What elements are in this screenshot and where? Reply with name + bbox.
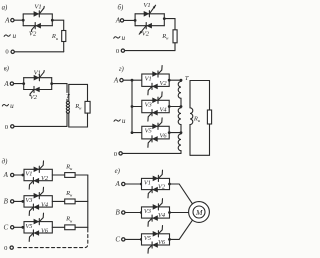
label ~u source — [2, 104, 8, 106]
svg-text:V3: V3 — [145, 102, 152, 109]
wire phase B to motor — [170, 212, 189, 214]
thyristor V6 — [33, 230, 39, 236]
wire A to bus — [123, 79, 132, 81]
label ~u source — [4, 35, 10, 37]
wire to load — [164, 19, 175, 30]
transformer T primary winding — [67, 101, 70, 113]
thyristor V6 — [152, 242, 158, 248]
wire block to winding tap — [169, 132, 181, 134]
svg-text:в): в) — [4, 66, 10, 73]
svg-text:и: и — [122, 117, 126, 125]
svg-text:V3: V3 — [25, 197, 32, 204]
thyristor V2 with arrow gate — [146, 23, 152, 29]
wire load branch — [87, 84, 89, 101]
wire parallel block frame — [23, 78, 25, 90]
node right junction — [51, 19, 54, 22]
node left junction — [134, 19, 137, 22]
svg-text:V4: V4 — [41, 201, 49, 208]
resistor Rn — [65, 173, 75, 178]
wire terminal to block — [125, 183, 142, 185]
terminal 0 — [121, 49, 124, 52]
svg-text:V1: V1 — [34, 4, 41, 11]
thyristor V2 — [33, 178, 39, 184]
thyristor block V5/V6 frame — [142, 126, 169, 139]
resistor Rn — [173, 30, 177, 43]
svg-text:V4: V4 — [159, 106, 167, 113]
output node — [168, 79, 171, 82]
thyristor V4 — [33, 204, 39, 210]
svg-text:V5: V5 — [25, 223, 32, 230]
svg-text:V2: V2 — [29, 31, 37, 38]
svg-text:V2: V2 — [142, 30, 150, 37]
svg-text:С: С — [115, 236, 120, 244]
thyristor V2 — [35, 23, 41, 29]
resistor Rn — [85, 101, 90, 113]
thyristor V3 — [152, 98, 158, 104]
node left junction — [22, 82, 25, 85]
wire parallel block frame — [134, 14, 136, 26]
wire parallel block frame — [22, 14, 24, 26]
wire to transformer primary — [52, 84, 67, 102]
transformer secondary winding — [68, 84, 70, 101]
winding tap node — [180, 105, 183, 108]
svg-text:V5: V5 — [144, 235, 151, 242]
wire terminal to block — [14, 200, 24, 202]
bus junction node — [131, 105, 134, 108]
output node — [168, 211, 171, 214]
terminal 0 — [10, 246, 13, 249]
node — [21, 200, 24, 203]
thyristor block V3/V4 frame — [24, 196, 52, 207]
thyristor V2 — [34, 87, 40, 93]
wire load to 0 rail — [174, 43, 176, 51]
bus vertical — [131, 80, 133, 132]
thyristor block V1/V2 frame — [142, 74, 169, 86]
node — [140, 238, 143, 241]
svg-text:V1: V1 — [145, 75, 152, 82]
wire 0 rail — [14, 51, 63, 53]
svg-text:е): е) — [115, 168, 121, 175]
wire terminal to block — [125, 212, 142, 214]
wire 0 rail — [122, 152, 181, 154]
wire A to node — [124, 19, 136, 21]
wire bus to block — [132, 106, 142, 108]
label ~u source — [114, 37, 120, 39]
resistor Rn — [65, 199, 75, 204]
svg-text:и: и — [13, 32, 17, 40]
wire terminal to block — [14, 226, 24, 228]
wire loop bottom — [190, 124, 210, 155]
wire resistor to right bus — [75, 226, 88, 228]
wire to load — [52, 20, 63, 30]
wire resistor to right bus — [75, 174, 88, 176]
terminal 0 — [119, 152, 122, 155]
thyristor V4 — [152, 110, 158, 116]
thyristor V1 — [34, 75, 40, 81]
node right junction — [163, 17, 166, 20]
winding tap node — [180, 79, 183, 82]
wire load to 0 rail — [63, 42, 65, 52]
node — [21, 226, 24, 229]
output node — [168, 238, 171, 241]
svg-text:V3: V3 — [144, 208, 151, 215]
svg-text:д): д) — [2, 158, 8, 165]
bus junction node — [131, 79, 134, 82]
wire block to resistor — [52, 200, 64, 202]
output node — [168, 131, 171, 134]
svg-text:А: А — [4, 16, 10, 24]
bus junction node — [131, 131, 134, 134]
svg-text:V1: V1 — [25, 171, 32, 178]
svg-text:T: T — [185, 75, 189, 82]
motor M inner circle — [193, 206, 205, 218]
svg-text:V5: V5 — [145, 128, 152, 135]
wire bus to block — [132, 132, 142, 134]
svg-text:и: и — [122, 34, 126, 42]
svg-text:А: А — [113, 76, 119, 84]
wire primary to 0 rail — [66, 113, 68, 126]
thyristor V2 — [152, 187, 158, 193]
thyristor V1 with arrow gate — [144, 11, 150, 17]
resistor Rn — [207, 110, 211, 124]
svg-text:А: А — [3, 80, 9, 88]
thyristor block V3/V4 frame — [142, 207, 170, 218]
resistor Rn — [65, 225, 75, 230]
wire block to resistor — [52, 226, 64, 228]
thyristor V3 — [34, 193, 40, 199]
svg-text:V1: V1 — [144, 180, 151, 187]
thyristor V4 — [152, 215, 158, 221]
wire 0 rail — [14, 125, 67, 127]
terminal 0 — [11, 125, 14, 128]
svg-text:В: В — [4, 198, 9, 206]
thyristor V2 — [152, 84, 158, 90]
thyristor block V1/V2 frame — [142, 178, 170, 189]
thyristor V5 — [153, 231, 159, 237]
svg-text:V2: V2 — [158, 183, 166, 190]
wire terminal to block — [125, 238, 142, 240]
thyristor V1 — [34, 11, 40, 17]
wire bus to block — [132, 79, 142, 81]
node — [140, 211, 143, 214]
svg-text:V1: V1 — [143, 2, 150, 9]
svg-text:T: T — [66, 93, 70, 100]
svg-text:V2: V2 — [159, 80, 167, 87]
wire resistor to right bus — [75, 200, 88, 202]
svg-text:С: С — [3, 224, 8, 232]
output node — [168, 183, 171, 186]
wire terminal to block — [14, 174, 24, 176]
wire secondary loop top — [69, 83, 88, 85]
thyristor block V1/V2 frame — [24, 169, 52, 180]
wire phase C to motor — [170, 220, 193, 239]
svg-text:В: В — [116, 209, 121, 217]
node — [140, 183, 143, 186]
svg-text:V1: V1 — [34, 70, 41, 77]
svg-text:б): б) — [118, 5, 124, 12]
right bus vertical — [87, 175, 89, 229]
svg-text:V6: V6 — [41, 227, 49, 234]
svg-text:V6: V6 — [158, 239, 166, 246]
svg-text:V4: V4 — [158, 212, 166, 219]
svg-text:А: А — [115, 180, 121, 188]
autotransformer primary winding — [180, 80, 182, 81]
thyristor V5 — [34, 219, 40, 225]
output node — [168, 105, 171, 108]
transformer secondary winding — [189, 81, 191, 108]
thyristor V1 — [152, 71, 158, 77]
label ~u source — [114, 120, 120, 122]
node right junction — [50, 82, 53, 85]
wire block to resistor — [52, 174, 64, 176]
wire block to winding tap — [169, 106, 181, 108]
node — [21, 174, 24, 177]
svg-text:V2: V2 — [41, 175, 49, 182]
thyristor V6 — [152, 136, 158, 142]
label T — [65, 93, 71, 99]
svg-text:V2: V2 — [30, 94, 38, 101]
terminal 0 — [11, 50, 14, 53]
wire secondary loop — [190, 80, 210, 82]
winding tap node — [180, 131, 183, 134]
wire block to winding tap — [169, 79, 181, 81]
wire A to node — [14, 19, 23, 21]
thyristor block V5/V6 frame — [24, 222, 52, 233]
dashed neutral wire — [16, 229, 88, 248]
thyristor V5 — [152, 124, 158, 130]
svg-text:а): а) — [2, 4, 8, 11]
motor M outer circle — [189, 202, 210, 223]
wire A to node — [14, 83, 24, 85]
svg-text:г): г) — [119, 66, 125, 73]
wire 0 rail — [125, 50, 176, 52]
resistor Rn — [62, 31, 66, 42]
svg-text:и: и — [10, 102, 14, 110]
thyristor V3 — [153, 204, 159, 210]
svg-text:M: M — [195, 208, 203, 217]
thyristor V1 — [153, 176, 159, 182]
thyristor block V3/V4 frame — [142, 100, 169, 112]
thyristor V1 — [34, 167, 40, 173]
wire loop bottom — [69, 113, 88, 127]
node left junction — [22, 19, 25, 22]
thyristor block V5/V6 frame — [142, 234, 170, 245]
svg-text:V6: V6 — [159, 133, 167, 140]
svg-text:А: А — [3, 171, 9, 179]
wire phase A to motor — [170, 184, 193, 204]
